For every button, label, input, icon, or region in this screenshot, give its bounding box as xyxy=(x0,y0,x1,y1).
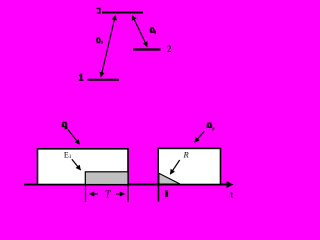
arrow from R to triangle xyxy=(170,160,180,174)
energy level 2 line (right) xyxy=(133,48,161,50)
dimension extension line right xyxy=(127,185,129,202)
omega_R label (above pulse 2) xyxy=(207,123,215,131)
svg-text:t: t xyxy=(230,190,233,200)
transition arrow omega1 (1 to 3) xyxy=(101,15,116,77)
dimension arrow right xyxy=(116,193,125,195)
energy level 1 line (bottom left) xyxy=(88,79,120,81)
level 3 label xyxy=(97,8,101,14)
dimension extension line left xyxy=(85,185,87,202)
omega_L label (above pulse 1) xyxy=(62,122,68,130)
energy level 3 line (top) xyxy=(102,12,143,14)
transition arrow omega2 (3 to 2) xyxy=(132,15,147,46)
arrow from omega_L to pulse 1 xyxy=(68,130,80,145)
pulse 2 left edge extension below axis xyxy=(158,185,160,202)
pulse 1 rectangle (left, white) xyxy=(38,149,129,185)
svg-text:R: R xyxy=(183,150,190,160)
tick label under axis (bold 1) xyxy=(165,190,168,197)
dimension arrow left xyxy=(90,193,99,195)
pulse 2 rectangle (right, white) xyxy=(158,148,220,184)
time axis arrowhead xyxy=(227,181,234,188)
gray rise triangle xyxy=(159,173,180,184)
svg-text:T: T xyxy=(105,190,112,201)
level 1 label xyxy=(79,74,84,81)
omega2 label xyxy=(150,27,156,34)
time axis xyxy=(24,184,229,186)
arrow from omega_R to pulse 2 xyxy=(195,131,205,142)
omega1 label xyxy=(96,37,102,43)
svg-text:2: 2 xyxy=(167,44,172,54)
arrow from E1 to gray sub-pulse xyxy=(72,159,81,170)
pulse 1 gray sub-rectangle xyxy=(85,172,128,185)
